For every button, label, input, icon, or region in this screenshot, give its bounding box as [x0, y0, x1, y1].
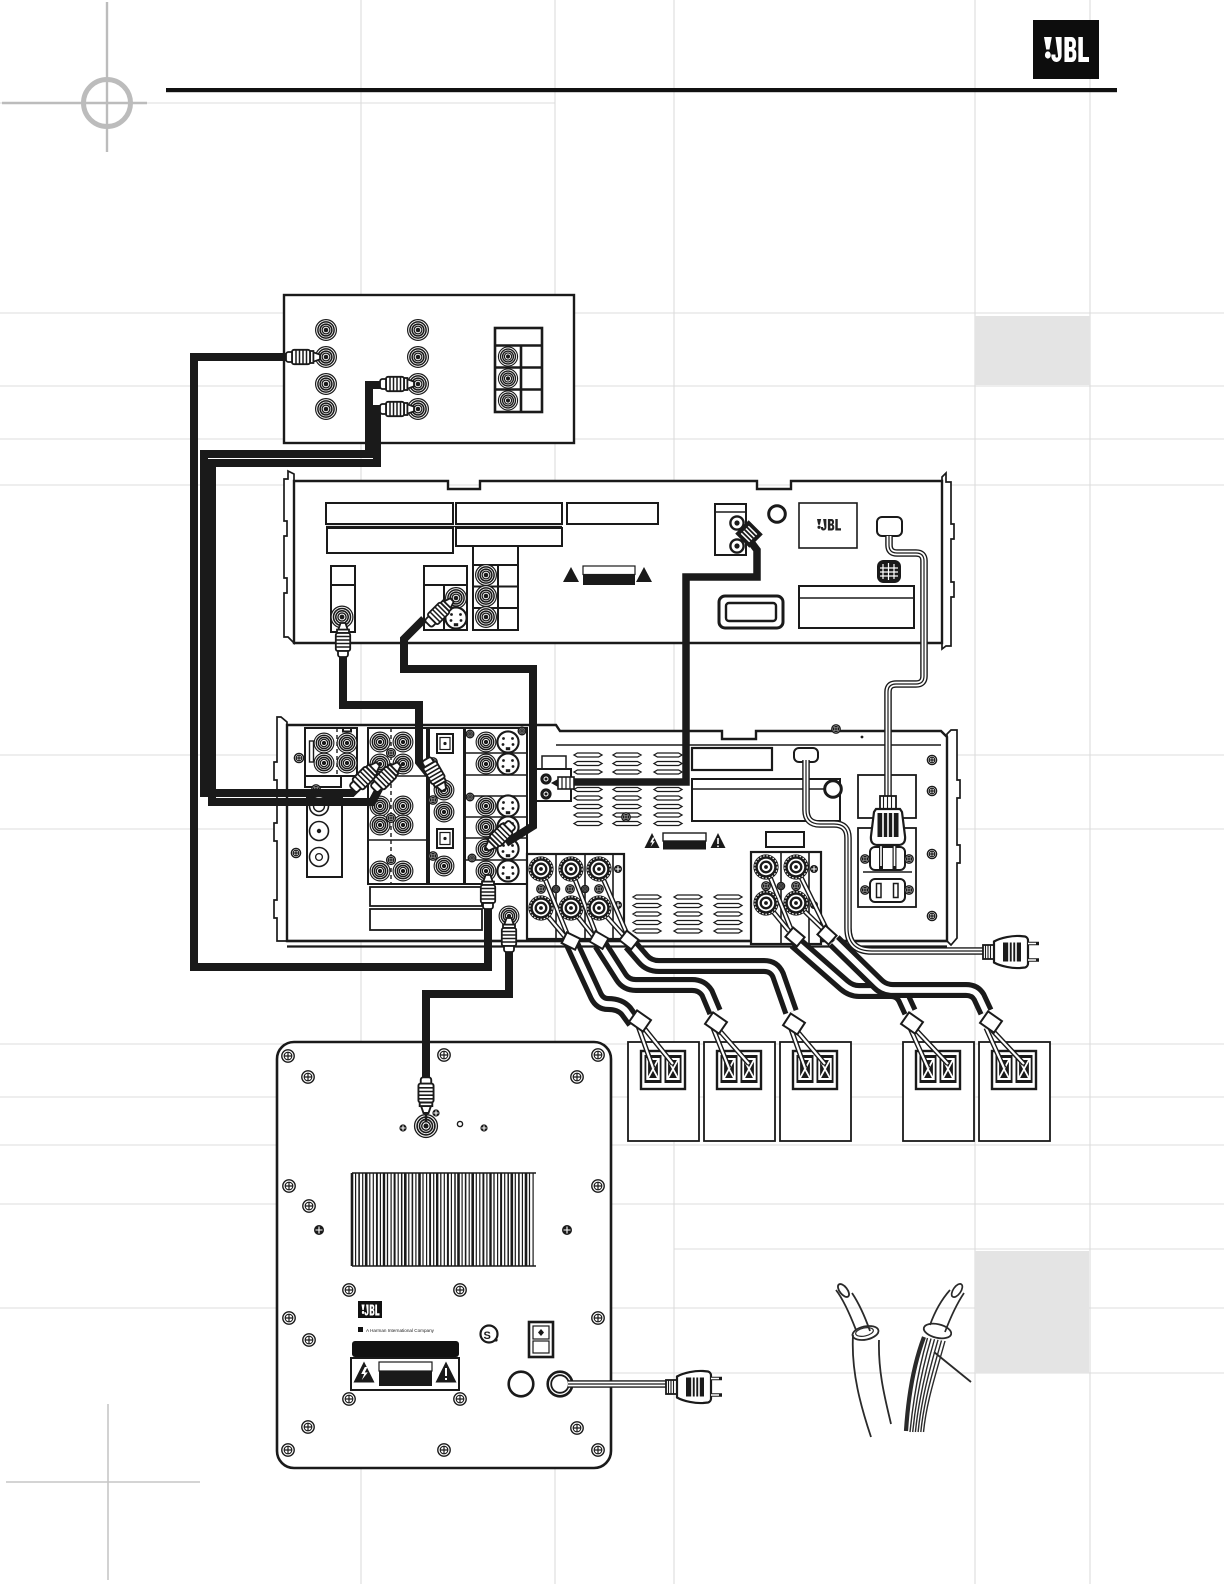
subwoofer heatsink: [352, 1173, 536, 1266]
field4 S-video jacks: [497, 731, 518, 881]
DVD label rectangles: [326, 503, 658, 553]
receiver right-side screws: [832, 725, 840, 733]
receiver jack field 1 box: [305, 728, 357, 787]
subwoofer input plug: [422, 1036, 430, 1083]
gray tint block lower right: [975, 1251, 1089, 1373]
receiver cord port: [794, 748, 818, 762]
receiver outlet lower plate: [858, 828, 916, 907]
speaker 4 terminal cup: [916, 1051, 960, 1089]
plug cable C into receiver: [368, 759, 404, 795]
speaker 3 terminal cup: [793, 1051, 837, 1089]
receiver right mounting flange: [947, 730, 960, 945]
DVD AV video jack: [446, 588, 467, 609]
cable A : TV video to receiver monitor out: [194, 357, 488, 967]
receiver inner top line: [556, 744, 941, 746]
header rule: [166, 88, 1117, 92]
subwoofer AC plug: [666, 1371, 722, 1403]
DVD component jacks: [476, 565, 497, 586]
speaker wire illustration left strand: [836, 1282, 891, 1437]
field4 screws: [466, 730, 474, 738]
receiver phono box: [307, 797, 342, 877]
DVD digital out block: [715, 504, 746, 555]
DVD right label rectangle: [799, 586, 914, 628]
receiver subwoofer out jack: [499, 906, 519, 926]
satellite speaker 1 box: [628, 1042, 699, 1141]
DVD power cord port: [877, 517, 902, 536]
receiver antenna terminal block: [536, 769, 571, 801]
DVD speaker grille icon: [877, 560, 901, 583]
TV RCA jack column 2: [408, 320, 429, 420]
plug into DVD AV out: [423, 595, 457, 629]
AC outlet 1: [870, 847, 905, 870]
receiver bottom-left label rects: [370, 887, 482, 906]
cable B : TV audio L: [204, 385, 384, 793]
subwoofer fuse holder: [509, 1372, 534, 1397]
receiver back panel outline: [287, 725, 947, 941]
TV back panel: [284, 295, 574, 443]
receiver vent screw: [622, 813, 630, 821]
cable E : DVD AV to receiver: [404, 619, 533, 843]
right group screws: [762, 882, 770, 890]
DVD video output rounded plate: [719, 596, 783, 628]
receiver large label rect: [692, 779, 840, 821]
cable D : DVD RF to receiver: [343, 652, 431, 777]
field4 row lines: [465, 753, 527, 860]
field3 jacks: [434, 780, 454, 800]
receiver vent slots lower: [633, 895, 742, 933]
receiver vent slots upper: [574, 753, 682, 826]
speaker cable 3: [630, 944, 791, 1012]
receiver caution label: [645, 833, 726, 850]
receiver bottom edge: [287, 941, 947, 947]
DVD S-video jack: [445, 607, 466, 628]
cable C : TV audio R: [212, 409, 384, 802]
speaker wires center group: [541, 869, 627, 938]
DVD digital plug: [735, 520, 763, 548]
plug into TV video in: [286, 350, 320, 364]
subwoofer CSA mark: [481, 1326, 498, 1343]
speaker cable 1: [572, 944, 634, 1022]
DVD power cord: [888, 536, 924, 798]
DVD coax circle: [769, 506, 786, 523]
plug cable D into receiver: [420, 755, 451, 793]
receiver outlet upper plate: [858, 775, 916, 818]
receiver field2 jacks: [370, 732, 413, 881]
DVD left mounting flange: [284, 471, 294, 643]
satellite speaker 2 box: [704, 1042, 775, 1141]
receiver antenna terminal label: [542, 756, 566, 769]
speaker wire illustration right strand: [906, 1282, 964, 1432]
svg-text:A Harman International Company: A Harman International Company: [366, 1328, 435, 1333]
plug cable E into receiver: [482, 818, 518, 854]
right group binding posts: [753, 854, 778, 879]
speaker wires right group: [766, 867, 826, 931]
speaker 1 terminal cup: [641, 1051, 685, 1089]
speaker cable 2: [600, 944, 715, 1012]
receiver field1 jacks: [314, 733, 334, 753]
subwoofer back panel: [277, 1042, 611, 1468]
wire pointer line: [934, 1352, 971, 1382]
subwoofer JBL logo: [358, 1301, 382, 1318]
receiver label rect top: [692, 748, 772, 770]
registration mark bottom left: [6, 1404, 200, 1580]
DVD RF connector block: [331, 566, 355, 632]
plug cable A into receiver monitor out: [481, 875, 495, 909]
phono jacks: [310, 797, 329, 867]
subwoofer warning label: [351, 1358, 459, 1390]
receiver end collars: [562, 932, 581, 949]
speaker lead-in wires: [638, 1026, 1024, 1068]
field4 RCA jacks: [476, 732, 496, 881]
subwoofer input screws: [432, 1109, 439, 1116]
satellite speaker 4 box: [903, 1042, 974, 1141]
antenna wire plug at receiver: [551, 777, 574, 789]
subwoofer power cord: [568, 1380, 666, 1388]
subwoofer input jack: [415, 1115, 438, 1138]
svg-text:S: S: [484, 1330, 491, 1342]
subwoofer model bar: [352, 1341, 459, 1357]
speaker cable 5: [834, 941, 986, 1012]
DVD JBL label plate: [799, 503, 857, 548]
subwoofer power switch: [529, 1322, 553, 1357]
receiver speaker terminals right group: [751, 852, 821, 944]
outlet screws: [861, 855, 869, 863]
digital coax cable DVD to receiver: [574, 542, 757, 782]
plug cable B into receiver: [347, 759, 383, 795]
gray tint block upper right: [975, 316, 1090, 385]
field3 switch 1: [437, 734, 453, 753]
speaker 5 terminal cup: [992, 1051, 1036, 1089]
DVD AV output block: [424, 566, 467, 630]
receiver speaker terminals center group: [527, 854, 624, 939]
receiver jack field 4 box: [465, 728, 527, 884]
DVD RF plug: [336, 623, 350, 657]
receiver jack field 2 box: [368, 728, 427, 884]
plugs into TV audio jacks: [380, 377, 414, 391]
receiver field1 screws: [294, 753, 303, 762]
subwoofer cable: [426, 948, 509, 1066]
receiver small label rect: [766, 832, 804, 847]
subwoofer corner screws: [282, 1049, 604, 1456]
field3 switch 2: [437, 829, 453, 848]
satellite speaker 5 box: [979, 1042, 1050, 1141]
receiver FM circle: [825, 781, 842, 798]
receiver left mounting flange: [274, 717, 287, 941]
DVD RF jack: [331, 606, 353, 628]
field3 screws: [429, 758, 437, 766]
DVD component block: [473, 546, 518, 630]
subwoofer company text: [358, 1327, 435, 1333]
DVD player back panel outline: [294, 481, 942, 643]
receiver AC plug: [983, 936, 1039, 968]
registration mark top left: [2, 2, 147, 152]
DVD right mounting flange: [942, 473, 954, 649]
center group binding posts: [528, 856, 553, 881]
DVD digital out jacks: [730, 516, 743, 552]
subwoofer out plug at receiver: [502, 918, 516, 952]
AC outlet 2: [870, 879, 905, 902]
DVD plug into outlet: [871, 796, 905, 869]
speaker cable collars: [629, 1010, 651, 1031]
TV RCA jack column 1: [316, 320, 337, 420]
receiver jack field 3 box: [429, 728, 464, 884]
receiver AC power cord: [806, 760, 984, 951]
speaker cable 4: [795, 942, 910, 1012]
satellite speaker 3 box: [780, 1042, 851, 1141]
subwoofer cord exit: [548, 1372, 573, 1397]
receiver field2 screws: [387, 749, 396, 758]
JBL logo top right: [1033, 20, 1099, 79]
speaker 2 terminal cup: [717, 1051, 761, 1089]
DVD caution label: [563, 566, 652, 585]
center group screws: [537, 885, 545, 893]
TV antenna terminal block: [495, 328, 542, 412]
